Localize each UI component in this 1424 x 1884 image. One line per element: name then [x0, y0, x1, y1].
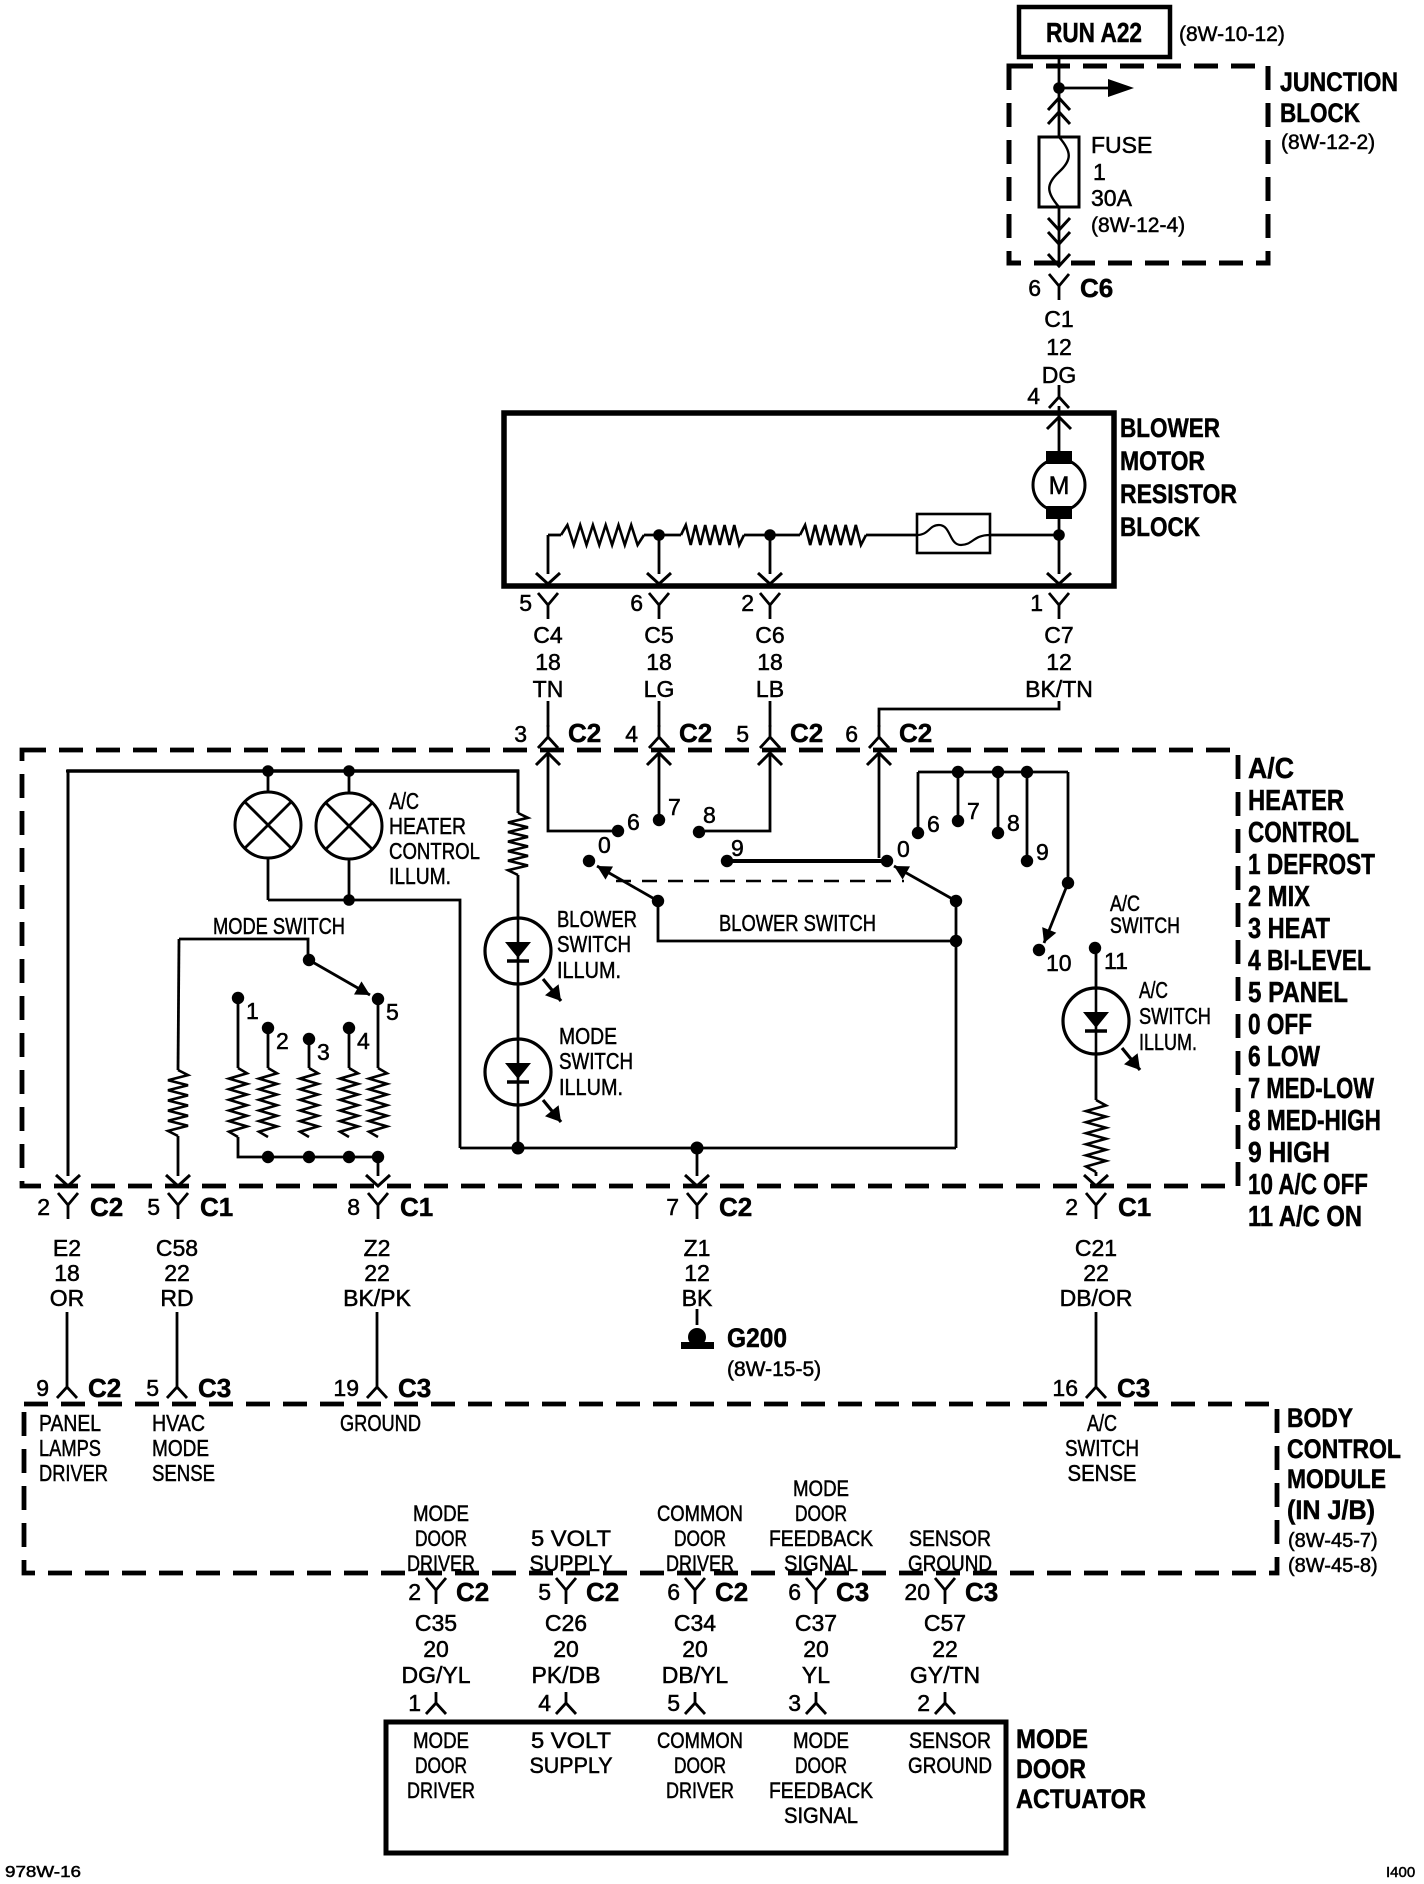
svg-text:DOOR: DOOR — [795, 1501, 847, 1526]
wire C21 to BCM — [1095, 1312, 1098, 1376]
rail node 7 — [952, 766, 964, 778]
blower switch left contact 0 — [583, 855, 595, 867]
svg-text:C7: C7 — [1044, 622, 1073, 648]
svg-text:MODE SWITCH: MODE SWITCH — [213, 913, 345, 939]
svg-text:DRIVER: DRIVER — [666, 1551, 734, 1576]
wire C7 jog to C2 pin6 — [879, 701, 1059, 727]
wire mode sense to pin5 — [177, 1136, 180, 1176]
svg-text:19: 19 — [333, 1375, 359, 1401]
mode resistor 3 — [300, 1068, 318, 1137]
svg-text:7 MED-LOW: 7 MED-LOW — [1248, 1073, 1374, 1105]
svg-text:12: 12 — [684, 1260, 710, 1286]
svg-text:SENSOR: SENSOR — [909, 1526, 991, 1551]
svg-text:MOTOR: MOTOR — [1120, 446, 1205, 476]
lamp A/C heater control illum 1 — [235, 792, 301, 858]
svg-text:FEEDBACK: FEEDBACK — [769, 1526, 873, 1551]
svg-text:C1: C1 — [1118, 1192, 1151, 1222]
svg-text:4 BI-LEVEL: 4 BI-LEVEL — [1248, 945, 1371, 977]
svg-text:ILLUM.: ILLUM. — [389, 863, 451, 889]
node lamp2 bottom — [343, 894, 355, 906]
wire LED to resistor — [1095, 1054, 1098, 1100]
svg-text:5: 5 — [147, 1194, 160, 1220]
svg-text:MODE: MODE — [152, 1435, 209, 1461]
wire tap arrow to right — [1059, 87, 1120, 90]
A/C rail contact 8 — [992, 827, 1004, 839]
A/C rail contact 6 — [912, 827, 924, 839]
svg-text:7: 7 — [666, 1194, 679, 1220]
fuse 1 30A — [1039, 137, 1079, 207]
svg-text:ILLUM.: ILLUM. — [559, 1074, 623, 1100]
svg-text:ILLUM.: ILLUM. — [1139, 1029, 1197, 1055]
svg-text:Z2: Z2 — [364, 1235, 391, 1261]
svg-text:C2: C2 — [456, 1577, 489, 1607]
svg-text:9: 9 — [36, 1375, 49, 1401]
svg-text:C3: C3 — [1117, 1373, 1150, 1403]
svg-text:DB/YL: DB/YL — [662, 1662, 729, 1688]
A/C rail contact 7 — [952, 815, 964, 827]
blower switch left contact 6 — [612, 825, 624, 837]
LED A/C switch illum — [1063, 988, 1129, 1054]
svg-text:BLOWER SWITCH: BLOWER SWITCH — [719, 910, 876, 936]
wire Z2 to BCM — [376, 1312, 379, 1376]
body control module outline — [24, 1404, 1277, 1573]
svg-text:DRIVER: DRIVER — [407, 1551, 475, 1576]
wire lamp1 bottom — [267, 857, 270, 900]
resistor A/C switch — [1086, 1100, 1106, 1172]
wire drop pin 1 — [1058, 535, 1061, 574]
resistor mode sense — [168, 1070, 188, 1136]
wire lamp bottoms to right drop — [268, 900, 460, 1148]
svg-text:C37: C37 — [795, 1610, 837, 1636]
wire C58 to BCM — [176, 1312, 179, 1376]
svg-text:7: 7 — [668, 794, 681, 820]
svg-text:12: 12 — [1046, 649, 1072, 675]
svg-text:20: 20 — [904, 1579, 930, 1605]
svg-text:5: 5 — [667, 1690, 680, 1716]
node junction tap — [1053, 82, 1065, 94]
svg-text:GROUND: GROUND — [340, 1410, 421, 1436]
svg-text:C2: C2 — [568, 718, 601, 748]
svg-text:30A: 30A — [1091, 185, 1133, 211]
arrow into block pin 4 — [1047, 417, 1071, 429]
svg-text:C2: C2 — [90, 1192, 123, 1222]
svg-text:A/C: A/C — [389, 788, 419, 814]
blower switch left contact 8 — [693, 826, 705, 838]
node bus 4 — [343, 1151, 355, 1163]
svg-text:C6: C6 — [755, 622, 784, 648]
mode resistor 5 — [369, 1068, 387, 1137]
svg-text:C58: C58 — [156, 1235, 198, 1261]
svg-text:1: 1 — [1093, 159, 1106, 185]
wire E2 to BCM — [66, 1312, 69, 1376]
svg-text:4: 4 — [357, 1028, 370, 1054]
svg-text:LG: LG — [644, 676, 675, 702]
svg-text:3: 3 — [317, 1039, 330, 1065]
svg-text:20: 20 — [682, 1636, 708, 1662]
svg-text:0: 0 — [598, 832, 611, 858]
wire lamp1 stub — [267, 771, 270, 793]
svg-text:GROUND: GROUND — [908, 1551, 992, 1576]
mode switch contact 3 — [303, 1033, 315, 1045]
svg-text:2: 2 — [741, 590, 754, 616]
resistor illum feed — [508, 813, 528, 875]
wire Z1 to ground — [696, 1309, 699, 1325]
svg-text:YL: YL — [802, 1662, 830, 1688]
svg-text:(8W-45-8): (8W-45-8) — [1288, 1555, 1378, 1577]
svg-text:6: 6 — [667, 1579, 680, 1605]
node lamp2 tap — [343, 765, 355, 777]
wire right pivot to ground bus — [955, 941, 958, 1148]
arrow into control at x=659 — [647, 753, 671, 765]
A/C switch pivot — [1062, 877, 1074, 889]
svg-text:LB: LB — [756, 676, 784, 702]
svg-text:5: 5 — [736, 721, 749, 747]
svg-text:2: 2 — [276, 1028, 289, 1054]
blower switch right contact 0 — [881, 855, 893, 867]
wire contact2 stub — [267, 1028, 270, 1068]
wire fuse to C6 — [1058, 207, 1061, 264]
svg-text:CONTROL: CONTROL — [1248, 817, 1359, 849]
svg-text:HEATER: HEATER — [389, 813, 466, 839]
svg-text:SWITCH: SWITCH — [559, 1048, 633, 1074]
ground G200 — [688, 1328, 706, 1346]
svg-text:BODY: BODY — [1287, 1403, 1353, 1433]
thermal limiter — [917, 514, 990, 553]
svg-text:A/C: A/C — [1087, 1410, 1117, 1436]
svg-text:6: 6 — [1028, 275, 1041, 301]
svg-text:FUSE: FUSE — [1091, 132, 1152, 158]
svg-text:1 DEFROST: 1 DEFROST — [1248, 849, 1375, 881]
svg-text:BLOCK: BLOCK — [1120, 512, 1200, 542]
svg-text:PANEL: PANEL — [39, 1410, 101, 1436]
svg-text:ACTUATOR: ACTUATOR — [1016, 1784, 1146, 1814]
svg-text:SUPPLY: SUPPLY — [530, 1753, 613, 1778]
wire contact9 to contact0b — [727, 859, 887, 863]
svg-text:MODE: MODE — [413, 1728, 469, 1753]
svg-text:22: 22 — [364, 1260, 390, 1286]
svg-text:DOOR: DOOR — [795, 1753, 847, 1778]
svg-text:11: 11 — [1104, 948, 1128, 974]
mode switch contact 2 — [262, 1022, 274, 1034]
svg-text:C4: C4 — [533, 622, 563, 648]
svg-text:LAMPS: LAMPS — [39, 1435, 101, 1461]
svg-text:C2: C2 — [715, 1577, 748, 1607]
svg-text:SWITCH: SWITCH — [1110, 913, 1180, 938]
mode switch arm — [309, 960, 370, 995]
svg-text:C26: C26 — [545, 1610, 587, 1636]
svg-text:(8W-12-4): (8W-12-4) — [1091, 214, 1185, 237]
LED blower switch illum — [485, 918, 551, 984]
svg-text:7: 7 — [967, 798, 980, 824]
svg-text:SWITCH: SWITCH — [1065, 1435, 1139, 1461]
arrow into control at x=548 — [536, 753, 560, 765]
svg-text:MODE: MODE — [793, 1476, 849, 1501]
svg-text:BLOCK: BLOCK — [1280, 98, 1360, 128]
svg-text:C21: C21 — [1075, 1235, 1117, 1261]
svg-text:C1: C1 — [400, 1192, 433, 1222]
svg-text:DOOR: DOOR — [674, 1753, 726, 1778]
node bus 2 — [262, 1151, 274, 1163]
svg-text:C1: C1 — [200, 1192, 233, 1222]
svg-text:11 A/C ON: 11 A/C ON — [1248, 1201, 1362, 1233]
wire drop pin 6 — [658, 535, 661, 574]
svg-text:5: 5 — [146, 1375, 159, 1401]
wire contact3 stub — [308, 1039, 311, 1068]
svg-text:6: 6 — [927, 811, 940, 837]
svg-text:SWITCH: SWITCH — [1139, 1003, 1211, 1029]
svg-text:TN: TN — [533, 676, 564, 702]
rail node 9 — [1021, 766, 1033, 778]
node ground exit — [691, 1142, 704, 1155]
svg-text:18: 18 — [535, 649, 561, 675]
svg-text:HEATER: HEATER — [1248, 785, 1344, 817]
svg-text:1: 1 — [246, 998, 259, 1024]
svg-text:DRIVER: DRIVER — [666, 1778, 734, 1803]
arrows down junction block exit — [1048, 218, 1070, 230]
blower switch right arm — [894, 866, 956, 901]
svg-text:DB/OR: DB/OR — [1060, 1285, 1133, 1311]
svg-text:20: 20 — [553, 1636, 579, 1662]
svg-text:DOOR: DOOR — [674, 1526, 726, 1551]
svg-text:16: 16 — [1052, 1375, 1078, 1401]
svg-text:SIGNAL: SIGNAL — [784, 1551, 858, 1576]
svg-text:3 HEAT: 3 HEAT — [1248, 913, 1330, 945]
svg-text:20: 20 — [423, 1636, 449, 1662]
svg-text:DRIVER: DRIVER — [407, 1778, 475, 1803]
A/C rail contact 9 — [1021, 855, 1033, 867]
svg-text:22: 22 — [932, 1636, 958, 1662]
wire rail to A/C switch pivot — [1067, 772, 1070, 883]
svg-text:GY/TN: GY/TN — [910, 1662, 980, 1688]
arrows up toward RUN A22 — [1048, 98, 1070, 110]
svg-text:6 LOW: 6 LOW — [1248, 1041, 1320, 1073]
svg-text:2: 2 — [1065, 1194, 1078, 1220]
mode switch contact 4 — [343, 1022, 355, 1034]
blower switch left arm — [597, 866, 658, 901]
A/C switch rail — [918, 771, 1068, 774]
svg-text:BK/TN: BK/TN — [1025, 676, 1093, 702]
wire pin4 to contact 7 — [658, 753, 661, 814]
svg-text:SUPPLY: SUPPLY — [530, 1551, 613, 1576]
wire C6 to C2 pin5 — [769, 701, 772, 727]
blower motor resistor block outline — [504, 413, 1114, 586]
svg-text:(IN J/B): (IN J/B) — [1287, 1495, 1375, 1525]
node LED ground — [512, 1142, 525, 1155]
svg-text:10: 10 — [1046, 950, 1072, 976]
A/C switch contact 10 — [1033, 944, 1045, 956]
svg-text:SWITCH: SWITCH — [557, 931, 631, 957]
svg-text:RESISTOR: RESISTOR — [1120, 479, 1237, 509]
LED mode switch illum — [485, 1039, 551, 1105]
svg-text:18: 18 — [757, 649, 783, 675]
A/C switch contact 11 — [1089, 942, 1101, 954]
svg-text:I400: I400 — [1386, 1864, 1415, 1881]
node bus 5 — [372, 1151, 384, 1163]
svg-text:5 VOLT: 5 VOLT — [531, 1728, 611, 1753]
wire pin6C2 down — [878, 753, 881, 858]
wire LED1 to LED2 — [517, 984, 520, 1039]
svg-text:C2: C2 — [790, 718, 823, 748]
svg-text:SENSOR: SENSOR — [909, 1728, 991, 1753]
svg-text:SENSE: SENSE — [1068, 1460, 1137, 1486]
svg-text:9 HIGH: 9 HIGH — [1248, 1137, 1330, 1169]
svg-text:E2: E2 — [53, 1235, 81, 1261]
arrow exit pin2 C2 — [56, 1175, 80, 1186]
svg-text:HVAC: HVAC — [152, 1410, 205, 1436]
mode resistor 2 — [259, 1068, 277, 1137]
svg-text:978W-16: 978W-16 — [5, 1864, 81, 1881]
lamp A/C heater control illum 2 — [316, 793, 382, 859]
svg-text:C2: C2 — [88, 1373, 121, 1403]
svg-text:4: 4 — [538, 1690, 551, 1716]
wire C4 to C2 pin3 — [547, 701, 550, 727]
svg-text:SIGNAL: SIGNAL — [784, 1803, 858, 1828]
svg-text:Z1: Z1 — [684, 1235, 711, 1261]
mode switch contact 1 — [232, 992, 244, 1004]
wire into blower block — [1058, 406, 1061, 416]
svg-text:C3: C3 — [198, 1373, 231, 1403]
node bus 3 — [303, 1151, 315, 1163]
svg-text:BLOWER: BLOWER — [1120, 413, 1220, 443]
svg-text:RUN A22: RUN A22 — [1046, 17, 1142, 48]
svg-text:DOOR: DOOR — [1016, 1754, 1086, 1784]
svg-text:C1: C1 — [1044, 306, 1073, 332]
svg-text:MODULE: MODULE — [1287, 1464, 1386, 1494]
wire LED2 to ground bus — [517, 1105, 520, 1148]
svg-text:5: 5 — [386, 999, 399, 1025]
wire pin4 to motor — [1058, 416, 1061, 453]
svg-text:G200: G200 — [727, 1323, 787, 1353]
power feed box RUN A22 — [1019, 7, 1170, 57]
svg-text:4: 4 — [625, 721, 638, 747]
svg-text:C57: C57 — [924, 1610, 966, 1636]
mode door actuator outline — [386, 1722, 1006, 1853]
wire C5 to C2 pin4 — [658, 701, 661, 727]
resistor R2 — [681, 525, 744, 545]
svg-text:C3: C3 — [965, 1577, 998, 1607]
svg-text:DG/YL: DG/YL — [401, 1662, 470, 1688]
svg-text:2: 2 — [37, 1194, 50, 1220]
svg-text:3: 3 — [788, 1690, 801, 1716]
svg-text:12: 12 — [1046, 334, 1072, 360]
svg-text:22: 22 — [164, 1260, 190, 1286]
node lamp1 tap — [262, 765, 274, 777]
svg-text:C5: C5 — [644, 622, 673, 648]
A/C heater control outline — [22, 750, 1238, 1186]
wire resistor to LED1 — [517, 875, 520, 918]
wire contact 11 to LED — [1095, 948, 1098, 988]
wire drop pin 2 — [769, 535, 772, 574]
resistor R3 — [800, 525, 866, 545]
illum arrow blower switch — [543, 979, 561, 1001]
svg-text:C2: C2 — [719, 1192, 752, 1222]
svg-text:5 VOLT: 5 VOLT — [531, 1526, 611, 1551]
resistor R1 (low speed) — [548, 534, 561, 537]
mode resistor 4 — [340, 1068, 358, 1137]
wire pin3 to contact 6 — [548, 753, 612, 831]
svg-text:2: 2 — [408, 1579, 421, 1605]
wire contact5 stub — [377, 999, 380, 1068]
svg-text:6: 6 — [788, 1579, 801, 1605]
svg-text:C35: C35 — [415, 1610, 457, 1636]
svg-text:8 MED-HIGH: 8 MED-HIGH — [1248, 1105, 1381, 1137]
svg-text:DRIVER: DRIVER — [39, 1460, 108, 1486]
svg-text:DG: DG — [1042, 362, 1077, 388]
wire lamp2 bottom — [348, 858, 351, 900]
svg-text:ILLUM.: ILLUM. — [557, 957, 621, 983]
svg-text:5 PANEL: 5 PANEL — [1248, 977, 1348, 1009]
svg-text:DOOR: DOOR — [415, 1753, 467, 1778]
wire RUN A22 to fuse — [1058, 57, 1061, 137]
illum arrow mode switch — [543, 1100, 561, 1122]
mode switch pivot — [303, 954, 315, 966]
blower switch left contact 7 — [653, 814, 665, 826]
svg-text:C6: C6 — [1080, 273, 1113, 303]
svg-text:3: 3 — [514, 721, 527, 747]
svg-text:9: 9 — [731, 835, 744, 861]
wire rail drop to contact 6 — [917, 772, 920, 827]
svg-text:C2: C2 — [586, 1577, 619, 1607]
svg-text:18: 18 — [54, 1260, 80, 1286]
svg-text:18: 18 — [646, 649, 672, 675]
motor M blower — [1046, 451, 1072, 464]
mode switch contact 5 — [372, 993, 384, 1005]
svg-text:9: 9 — [1036, 839, 1049, 865]
svg-text:(8W-15-5): (8W-15-5) — [727, 1358, 821, 1381]
svg-text:DOOR: DOOR — [415, 1526, 467, 1551]
mode resistor 1 — [229, 1068, 247, 1137]
svg-text:8: 8 — [703, 802, 716, 828]
node motor bottom — [1053, 529, 1065, 541]
svg-text:MODE: MODE — [1016, 1724, 1088, 1754]
wire contact4 stub — [348, 1028, 351, 1068]
svg-text:(8W-45-7): (8W-45-7) — [1288, 1530, 1378, 1552]
blower switch left contact 9 — [721, 855, 733, 867]
svg-text:(8W-10-12): (8W-10-12) — [1179, 23, 1285, 46]
illum arrow A/C switch — [1122, 1048, 1140, 1070]
svg-text:(8W-12-2): (8W-12-2) — [1281, 131, 1375, 154]
svg-text:20: 20 — [803, 1636, 829, 1662]
svg-text:GROUND: GROUND — [908, 1753, 992, 1778]
svg-text:C34: C34 — [674, 1610, 716, 1636]
wire pin5 to contact 8 — [705, 753, 770, 831]
junction block outline — [1009, 66, 1268, 263]
svg-text:PK/DB: PK/DB — [531, 1662, 600, 1688]
wire left pivot down-right — [658, 901, 956, 941]
svg-text:BK: BK — [682, 1285, 713, 1311]
svg-text:22: 22 — [1083, 1260, 1109, 1286]
svg-text:1: 1 — [1030, 590, 1043, 616]
svg-text:6: 6 — [845, 721, 858, 747]
svg-text:MODE: MODE — [793, 1728, 849, 1753]
mode switch rail — [179, 939, 308, 955]
svg-text:MODE: MODE — [559, 1023, 617, 1049]
svg-text:8: 8 — [347, 1194, 360, 1220]
svg-text:C3: C3 — [398, 1373, 431, 1403]
arrow into control at x=770 — [758, 753, 782, 765]
rail node 8 — [992, 766, 1004, 778]
svg-text:RD: RD — [160, 1285, 193, 1311]
svg-text:M: M — [1049, 472, 1070, 500]
wire drop pin 5 — [547, 535, 550, 574]
svg-text:0: 0 — [897, 836, 910, 862]
wire ground exit drop — [696, 1148, 699, 1176]
mode switch bottom bus — [238, 1137, 378, 1157]
svg-text:FEEDBACK: FEEDBACK — [769, 1778, 873, 1803]
wire lamp2 stub — [348, 771, 351, 793]
svg-text:CONTROL: CONTROL — [389, 838, 480, 864]
switch coupling dashed link — [616, 880, 904, 883]
